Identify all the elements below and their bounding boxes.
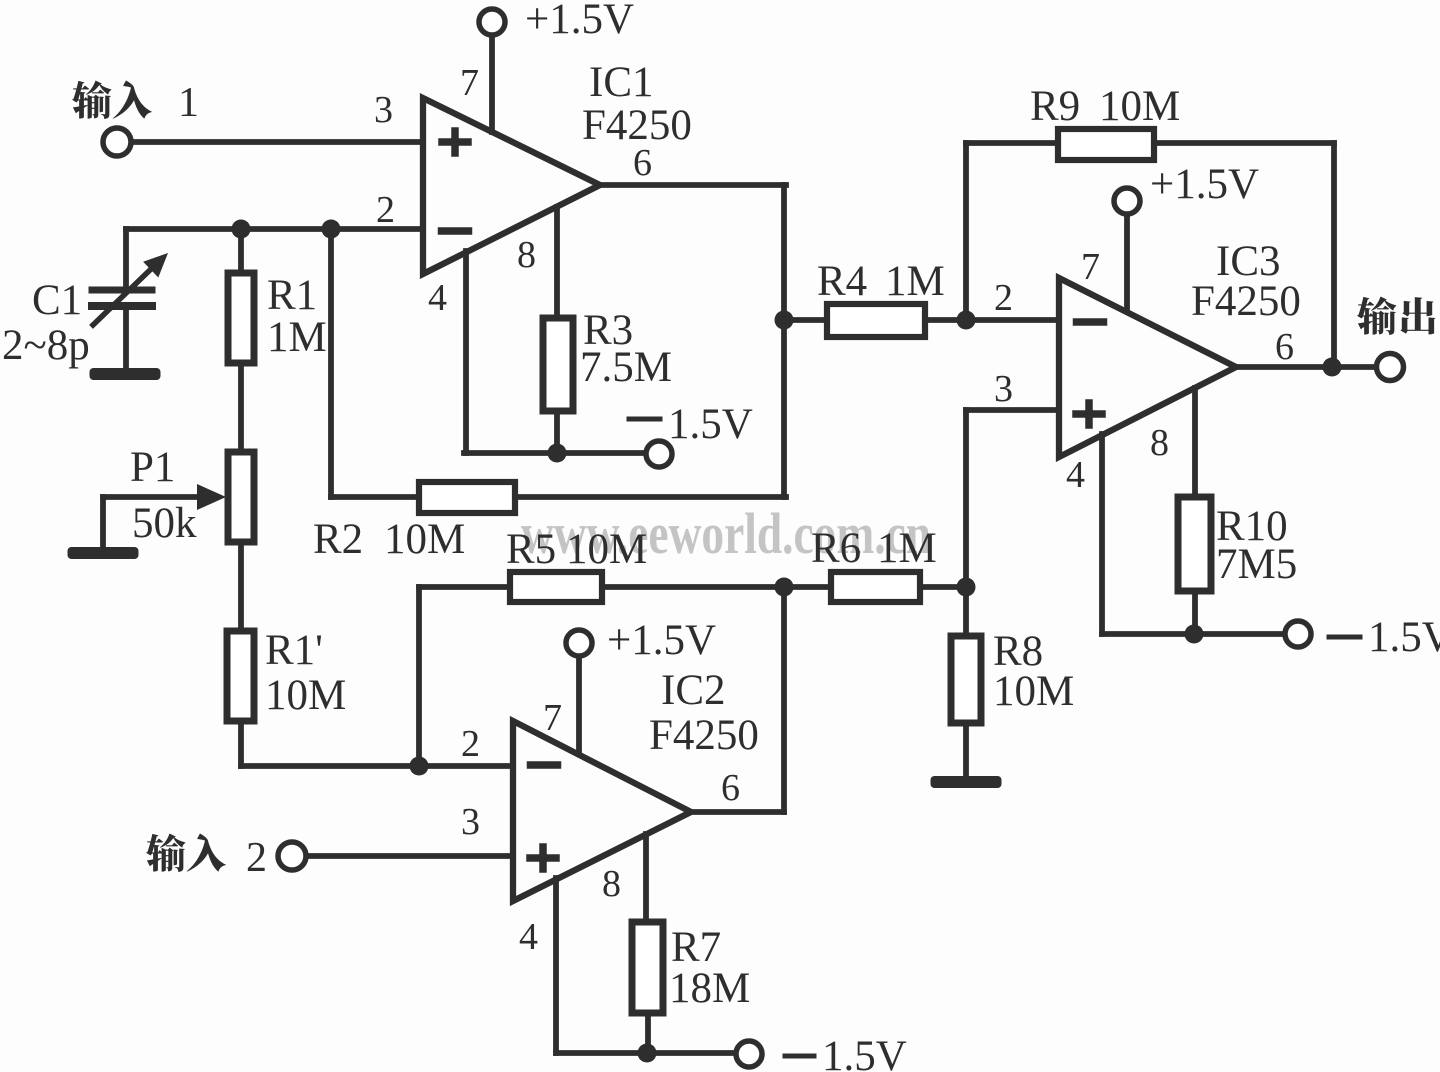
svg-text:F4250: F4250 — [649, 712, 759, 759]
svg-text:7: 7 — [543, 697, 562, 739]
svg-text:1M: 1M — [877, 525, 937, 572]
svg-text:2: 2 — [994, 277, 1013, 319]
svg-text:R7: R7 — [671, 924, 721, 971]
svg-text:R4: R4 — [817, 258, 867, 305]
svg-text:10M: 10M — [265, 672, 346, 719]
svg-text:4: 4 — [428, 277, 447, 319]
svg-text:P1: P1 — [130, 444, 175, 491]
svg-text:7: 7 — [1081, 246, 1100, 288]
svg-text:1.5V: 1.5V — [668, 401, 753, 448]
svg-text:1: 1 — [178, 80, 199, 126]
svg-text:F4250: F4250 — [582, 102, 692, 149]
svg-text:4: 4 — [519, 916, 538, 958]
svg-text:6: 6 — [721, 767, 740, 809]
svg-text:R5: R5 — [506, 526, 556, 573]
svg-text:1.5V: 1.5V — [1368, 614, 1440, 661]
svg-text:+1.5V: +1.5V — [525, 0, 634, 43]
svg-text:10M: 10M — [384, 516, 465, 563]
svg-text:C1: C1 — [32, 277, 82, 324]
svg-text:2: 2 — [461, 723, 480, 765]
svg-text:3: 3 — [374, 89, 393, 131]
svg-text:4: 4 — [1066, 454, 1085, 496]
svg-text:R6: R6 — [811, 525, 861, 572]
svg-text:+1.5V: +1.5V — [607, 617, 716, 664]
svg-text:8: 8 — [602, 863, 621, 905]
svg-text:8: 8 — [1150, 422, 1169, 464]
svg-text:10M: 10M — [1099, 83, 1180, 130]
svg-text:2~8p: 2~8p — [2, 322, 90, 369]
svg-text:IC2: IC2 — [661, 667, 726, 714]
svg-text:R9: R9 — [1030, 83, 1080, 130]
svg-text:3: 3 — [994, 368, 1013, 410]
svg-text:R2: R2 — [313, 516, 363, 563]
svg-text:1M: 1M — [267, 314, 327, 361]
svg-text:7: 7 — [460, 62, 479, 104]
svg-text:IC1: IC1 — [589, 59, 654, 106]
svg-text:1.5V: 1.5V — [822, 1033, 907, 1072]
svg-text:7.5M: 7.5M — [580, 344, 672, 391]
svg-text:10M: 10M — [566, 526, 647, 573]
svg-text:1M: 1M — [885, 258, 945, 305]
svg-text:18M: 18M — [669, 965, 750, 1012]
svg-text:7M5: 7M5 — [1216, 541, 1297, 588]
svg-text:10M: 10M — [993, 668, 1074, 715]
svg-text:+1.5V: +1.5V — [1150, 161, 1259, 208]
svg-text:R1': R1' — [265, 627, 323, 674]
svg-text:2: 2 — [246, 835, 267, 881]
svg-text:R1: R1 — [267, 272, 317, 319]
svg-text:8: 8 — [517, 234, 536, 276]
svg-text:3: 3 — [461, 801, 480, 843]
svg-text:2: 2 — [376, 189, 395, 231]
svg-text:6: 6 — [1275, 326, 1294, 368]
svg-text:50k: 50k — [132, 500, 197, 547]
svg-text:F4250: F4250 — [1191, 278, 1301, 325]
